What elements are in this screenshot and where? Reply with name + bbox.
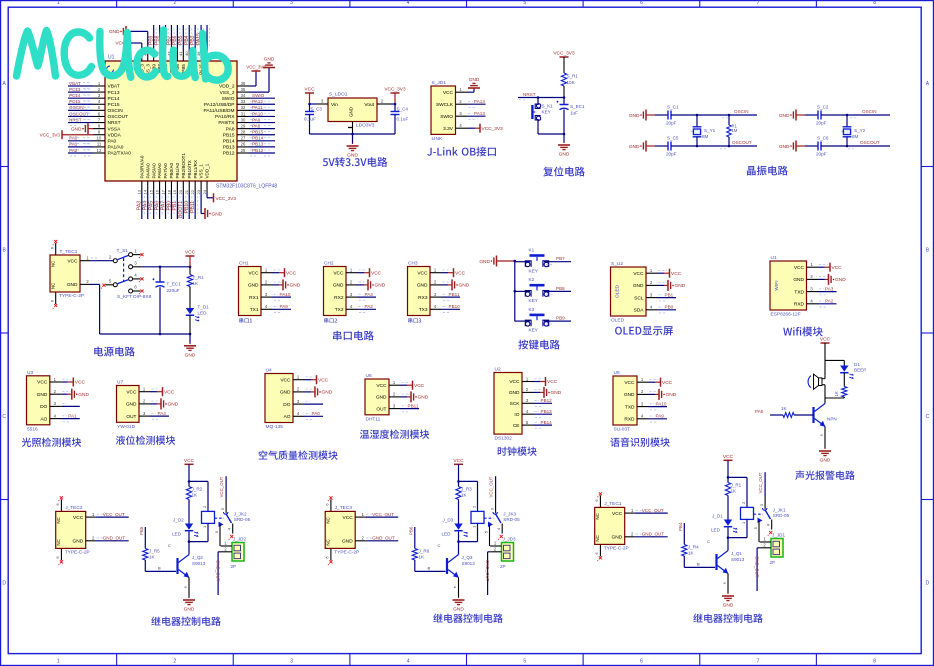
ground rail of LDO (310, 122, 396, 159)
svg-text:1K: 1K (193, 281, 200, 286)
svg-text:U7: U7 (117, 380, 123, 386)
svg-text:PB14: PB14 (223, 139, 235, 145)
svg-text:7: 7 (757, 0, 760, 6)
svg-text:GND: GND (184, 607, 195, 613)
svg-text:GND: GND (418, 395, 429, 401)
svg-text:VCC: VCC (455, 270, 466, 276)
svg-text:SWIO: SWIO (440, 114, 453, 120)
svg-text:5516: 5516 (27, 426, 38, 432)
svg-text:1: 1 (57, 658, 60, 664)
svg-text:1K: 1K (688, 550, 695, 555)
svg-text:PB4: PB4 (678, 522, 683, 531)
svg-text:PA3: PA3 (365, 292, 374, 297)
svg-text:PA10: PA10 (656, 401, 667, 406)
svg-text:C: C (926, 414, 930, 420)
svg-text:PA9: PA9 (280, 304, 289, 309)
svg-text:PA11: PA11 (252, 105, 263, 110)
wire and net label OSCIN (821, 109, 890, 118)
svg-text:GND_OUT: GND_OUT (372, 536, 395, 541)
title crystal circuit (747, 166, 788, 176)
svg-text:TX2: TX2 (335, 307, 344, 313)
svg-text:RXD: RXD (624, 417, 635, 423)
relay contact J_JK2 SRD-05 (214, 476, 251, 546)
svg-text:S_JD1: S_JD1 (432, 80, 447, 86)
switch T_S1 S_KFT DIP-8X8 (101, 248, 152, 300)
svg-text:4: 4 (407, 0, 410, 6)
svg-text:PA0: PA0 (312, 411, 321, 416)
svg-text:5: 5 (523, 658, 526, 664)
svg-text:20pF: 20pF (816, 152, 827, 157)
label serial port 2 (324, 318, 337, 323)
title key circuit (518, 340, 560, 350)
svg-text:PA12/USB/DP: PA12/USB/DP (204, 102, 235, 108)
svg-text:GND: GND (459, 283, 470, 289)
svg-text:C: C (438, 543, 441, 548)
svg-text:PA10/RX: PA10/RX (215, 114, 235, 120)
resistor S_R1 10K (561, 73, 578, 98)
svg-text:PA1: PA1 (68, 413, 77, 418)
svg-text:U5: U5 (614, 370, 620, 376)
svg-text:PB15: PB15 (223, 132, 235, 138)
svg-text:J_Q3: J_Q3 (462, 555, 473, 560)
svg-text:J_R2: J_R2 (192, 486, 203, 491)
title relay control (433, 614, 503, 623)
svg-text:T_EC1: T_EC1 (167, 282, 182, 287)
MCU right pins 25-36 (203, 81, 275, 157)
svg-text:18: 18 (166, 189, 171, 194)
svg-text:PC14: PC14 (108, 96, 120, 102)
title relay control (151, 617, 221, 626)
power VCC_3V3 on MCU pin 9 VDDA (40, 130, 93, 139)
svg-text:GND: GND (551, 390, 562, 396)
svg-text:PB12: PB12 (223, 151, 235, 157)
svg-text:J_JK1: J_JK1 (773, 508, 786, 513)
svg-text:PB11: PB11 (190, 201, 196, 213)
svg-text:4: 4 (407, 658, 410, 664)
module U1 ESP8266 WiFi (770, 255, 846, 317)
svg-text:S_U2: S_U2 (611, 261, 623, 267)
svg-text:GND: GND (633, 283, 644, 289)
svg-text:BEEP: BEEP (854, 368, 866, 373)
svg-text:8: 8 (873, 0, 876, 6)
key K1 (515, 248, 571, 274)
svg-text:VDD_1: VDD_1 (205, 163, 210, 178)
capacitor S_C5 20pF (655, 136, 679, 157)
svg-text:TX1: TX1 (250, 307, 259, 313)
svg-text:20: 20 (178, 189, 183, 194)
svg-text:PA1: PA1 (69, 142, 78, 147)
connector CH1 serial (239, 261, 301, 316)
title air quality module (259, 450, 338, 459)
svg-text:WIFI: WIFI (774, 280, 780, 290)
ground on MCU pin 35 VSS_2 (249, 57, 275, 93)
svg-text:NC: NC (595, 535, 600, 541)
svg-text:U3: U3 (27, 370, 33, 376)
key K3 (515, 307, 571, 333)
svg-text:220uF: 220uF (167, 288, 180, 293)
svg-text:VCC: VCC (723, 454, 734, 460)
svg-text:J_D2: J_D2 (173, 518, 184, 523)
connector J_JD1 2P (760, 533, 786, 565)
power VCC_3V3 on MCU pin 24 VDD_1 (207, 193, 236, 203)
svg-text:VCC: VCC (624, 380, 635, 386)
svg-text:GND: GND (779, 113, 790, 119)
svg-text:J_Q1: J_Q1 (731, 551, 742, 556)
svg-text:TYPE-C-2P: TYPE-C-2P (604, 545, 629, 551)
svg-text:GND_OUT: GND_OUT (103, 536, 126, 541)
relay circuit 2 (453, 458, 477, 483)
svg-text:25: 25 (241, 148, 246, 153)
svg-text:NRST: NRST (69, 117, 82, 122)
ground on MCU pin 47 (109, 26, 148, 51)
svg-text:DS1302: DS1302 (495, 436, 513, 442)
svg-text:SWIO: SWIO (252, 93, 265, 98)
svg-text:K2: K2 (529, 277, 535, 282)
capacitor S_C4 0.1uF (391, 104, 409, 134)
relay coil (728, 477, 754, 537)
svg-text:VDD_2: VDD_2 (219, 84, 235, 90)
ground crystal circuit 1 OSCIN side (629, 110, 655, 121)
ground on MCU pin 23 VSS_1 (201, 193, 223, 220)
svg-text:SWCLK: SWCLK (436, 102, 454, 108)
svg-text:16: 16 (154, 189, 159, 194)
svg-text:LINK: LINK (432, 136, 443, 142)
svg-text:NC: NC (56, 517, 61, 523)
resistor T_R1 1K (187, 267, 204, 308)
svg-text:1M: 1M (732, 128, 738, 133)
resistor R1 1M (727, 114, 738, 148)
svg-text:TXD: TXD (625, 404, 635, 410)
power VCC input (304, 87, 315, 104)
power VCC alarm (820, 337, 831, 361)
svg-text:PA8: PA8 (252, 123, 261, 128)
svg-text:21: 21 (184, 189, 189, 194)
svg-text:OSCIN: OSCIN (734, 109, 749, 114)
svg-text:VCC: VCC (453, 458, 464, 464)
capacitor S_C2 20pF (805, 105, 829, 126)
svg-text:GND: GND (322, 390, 333, 396)
pin 3 wire Vin (308, 99, 328, 106)
svg-text:TX3: TX3 (419, 307, 428, 313)
relay contact J_JK3 SRD-05 (484, 476, 521, 546)
svg-text:PC13: PC13 (69, 87, 81, 92)
svg-text:VCC: VCC (371, 270, 382, 276)
svg-text:NC: NC (51, 261, 56, 267)
svg-text:GND: GND (509, 390, 520, 396)
label serial port 3 (408, 318, 421, 323)
svg-text:PA6/A0: PA6/A0 (157, 163, 162, 179)
svg-text:C: C (168, 543, 171, 548)
svg-text:GND: GND (185, 352, 196, 358)
svg-text:PA0: PA0 (108, 139, 117, 145)
svg-text:PB13: PB13 (541, 409, 553, 414)
svg-text:33: 33 (241, 99, 246, 104)
svg-text:20pF: 20pF (666, 152, 677, 157)
svg-text:VBAT: VBAT (108, 84, 120, 90)
title light detect module (22, 437, 81, 446)
svg-text:CH3: CH3 (408, 261, 418, 267)
svg-text:U1: U1 (108, 55, 115, 61)
svg-text:32: 32 (241, 105, 246, 110)
svg-text:NC: NC (595, 513, 600, 519)
svg-text:8M: 8M (702, 134, 709, 139)
svg-text:GND: GND (375, 283, 386, 289)
svg-text:OSCOUT: OSCOUT (860, 140, 880, 145)
title OLED (615, 326, 673, 335)
relay circuit 3 (723, 454, 747, 479)
power VCC of supply (185, 250, 196, 267)
svg-text:VCC: VCC (820, 337, 831, 343)
ground of supply (184, 334, 196, 358)
svg-text:D: D (2, 581, 6, 587)
svg-text:CH1: CH1 (239, 261, 249, 267)
svg-text:SCK: SCK (510, 401, 521, 407)
svg-text:J_TEC2: J_TEC2 (65, 505, 83, 511)
svg-text:VCC: VCC (164, 389, 175, 395)
svg-text:PA2: PA2 (69, 148, 78, 153)
svg-text:S_Y1: S_Y1 (704, 128, 716, 133)
svg-text:VCC: VCC (343, 515, 354, 521)
svg-text:GND_OUT: GND_OUT (755, 556, 760, 578)
transistor J_Q1 S9013 (707, 538, 745, 574)
svg-text:TYPE-C-2P: TYPE-C-2P (334, 549, 359, 555)
LED T_D1 (186, 305, 209, 335)
svg-text:PA5/A0: PA5/A0 (151, 163, 156, 179)
svg-text:PB9: PB9 (556, 316, 565, 321)
svg-text:PA1/A0: PA1/A0 (108, 145, 124, 151)
svg-text:SWIO: SWIO (222, 96, 235, 102)
svg-text:14: 14 (143, 189, 148, 194)
svg-text:PB10/TX: PB10/TX (187, 160, 192, 178)
svg-text:VCC: VCC (832, 265, 843, 271)
svg-text:PA0: PA0 (69, 136, 78, 141)
module U7 liquid level YW-01D (117, 380, 179, 430)
capacitor T_EC1 220uF (153, 267, 182, 334)
svg-text:LDO3V3: LDO3V3 (356, 123, 375, 129)
svg-text:CE: CE (513, 423, 520, 429)
MCU bottom pins 13-24 (137, 153, 210, 219)
wire switch out rail (141, 266, 191, 269)
svg-text:35: 35 (241, 87, 246, 92)
svg-text:3: 3 (290, 0, 293, 6)
svg-text:10K: 10K (567, 80, 576, 85)
svg-text:GND: GND (779, 144, 790, 150)
svg-text:DHT11: DHT11 (366, 416, 381, 422)
svg-text:C: C (2, 414, 6, 420)
svg-text:VCC_OUT: VCC_OUT (372, 512, 394, 517)
svg-text:26: 26 (241, 142, 246, 147)
relay coil (459, 481, 485, 541)
LED J_D1 (711, 514, 738, 539)
module U5 SU-03T voice (613, 370, 677, 432)
svg-text:0.1uF: 0.1uF (304, 116, 316, 121)
svg-text:GND: GND (629, 144, 640, 150)
svg-text:12: 12 (97, 148, 102, 153)
svg-text:PA10: PA10 (280, 292, 291, 297)
svg-text:VSS_2: VSS_2 (220, 90, 235, 96)
svg-text:TYPE-C-2P: TYPE-C-2P (59, 293, 84, 299)
ground on MCU pin 8 VSSA (71, 123, 93, 134)
svg-text:GND: GND (290, 283, 301, 289)
svg-text:30: 30 (241, 117, 246, 122)
svg-text:PB7: PB7 (556, 256, 565, 261)
svg-text:B: B (158, 566, 161, 571)
transistor J_Q3 S9013 (438, 542, 476, 578)
svg-text:6: 6 (640, 658, 643, 664)
net GND_OUT (755, 548, 760, 591)
capacitor S_C3 0.1uF (304, 104, 322, 134)
svg-text:LED: LED (198, 311, 208, 316)
svg-text:GND: GND (349, 107, 354, 117)
svg-text:VCC_3V3: VCC_3V3 (216, 196, 237, 201)
svg-text:PA13: PA13 (474, 111, 485, 116)
svg-text:10: 10 (97, 136, 102, 141)
net GND_OUT (216, 552, 221, 595)
LED J_D3 (442, 518, 469, 543)
svg-text:PA12: PA12 (252, 99, 263, 104)
svg-text:OSCOUT: OSCOUT (732, 140, 752, 145)
svg-text:VCC: VCC (280, 377, 291, 383)
svg-text:NC: NC (56, 539, 61, 545)
power VCC_3V3 on MCU pin 36 VDD_2 (246, 65, 266, 87)
svg-text:1K: 1K (834, 391, 839, 396)
svg-text:STM32F103C8T6_LQFP48: STM32F103C8T6_LQFP48 (216, 184, 277, 190)
svg-text:GND: GND (333, 283, 344, 289)
svg-text:PB5: PB5 (139, 526, 144, 535)
svg-text:PB11: PB11 (408, 403, 419, 408)
svg-text:2: 2 (174, 0, 177, 6)
svg-text:S_K1: S_K1 (542, 104, 554, 109)
svg-text:29: 29 (241, 123, 246, 128)
svg-text:RX1: RX1 (249, 295, 259, 301)
svg-text:GND: GND (820, 458, 831, 464)
svg-text:8: 8 (873, 658, 876, 664)
svg-text:PC13: PC13 (108, 90, 120, 96)
svg-text:40: 40 (184, 51, 189, 56)
resistor J_R1 1K (725, 477, 741, 519)
ground crystal circuit 2 OSCOUT side (779, 141, 805, 152)
title sound light alarm (795, 471, 855, 480)
svg-text:U4: U4 (266, 368, 272, 374)
svg-text:PB12: PB12 (541, 398, 553, 403)
svg-text:13: 13 (137, 189, 142, 194)
svg-text:OLED: OLED (615, 284, 621, 298)
key K2 (515, 277, 571, 303)
svg-text:PA9: PA9 (252, 117, 261, 122)
svg-text:11: 11 (97, 142, 102, 147)
svg-text:2: 2 (174, 658, 177, 664)
svg-text:VCC_OUT: VCC_OUT (642, 508, 664, 513)
svg-text:PA2: PA2 (365, 304, 374, 309)
connector J_JD3 2P (490, 537, 516, 569)
svg-text:8M: 8M (852, 134, 859, 139)
svg-text:PA4/A0: PA4/A0 (145, 163, 150, 179)
svg-text:15: 15 (148, 189, 153, 194)
svg-text:S_R1: S_R1 (567, 74, 579, 79)
svg-text:OSCIN: OSCIN (862, 109, 877, 114)
svg-text:VCC: VCC (37, 380, 48, 386)
svg-text:GND: GND (71, 126, 82, 132)
transistor Q NPN (814, 398, 837, 427)
svg-text:VBAT: VBAT (69, 81, 81, 86)
svg-text:SCL: SCL (634, 295, 644, 301)
svg-text:NRST: NRST (108, 120, 121, 126)
connector T_TEC1 TYPE-C-2P (50, 240, 91, 309)
svg-text:VCC: VCC (417, 270, 428, 276)
svg-text:VCC: VCC (662, 380, 673, 386)
svg-text:GND: GND (835, 277, 846, 283)
svg-text:LED: LED (442, 532, 452, 537)
ground crystal circuit 2 OSCIN side (779, 110, 805, 121)
svg-text:IO: IO (514, 412, 519, 418)
svg-text:GND: GND (67, 282, 78, 288)
svg-text:T_D1: T_D1 (198, 305, 210, 310)
title J-Link OB (427, 147, 496, 157)
svg-text:20pF: 20pF (816, 121, 827, 126)
svg-text:C: C (707, 539, 710, 544)
svg-text:PA2: PA2 (825, 299, 834, 304)
svg-text:S_LDO1: S_LDO1 (329, 92, 348, 98)
svg-text:S_Y2: S_Y2 (854, 128, 866, 133)
svg-text:GND: GND (629, 113, 640, 119)
svg-text:GND: GND (675, 283, 686, 289)
svg-text:PB1/A0: PB1/A0 (175, 162, 180, 178)
svg-text:J_R4: J_R4 (688, 544, 699, 549)
svg-text:PA5: PA5 (755, 409, 764, 414)
svg-text:PB14: PB14 (252, 136, 264, 141)
base resistor J_R4 and net PB4 (678, 522, 715, 567)
title reset circuit (543, 167, 584, 177)
svg-text:31: 31 (241, 111, 246, 116)
svg-text:NC: NC (326, 517, 331, 523)
svg-text:2P: 2P (770, 560, 776, 565)
crystal S_Y1 8M (690, 114, 716, 148)
svg-text:VSS_1: VSS_1 (199, 164, 204, 179)
svg-text:PA11/USB/DM: PA11/USB/DM (203, 108, 234, 114)
svg-text:22: 22 (190, 189, 195, 194)
svg-text:KEY: KEY (529, 328, 538, 333)
svg-text:PB0/A0: PB0/A0 (169, 162, 174, 178)
svg-text:U2: U2 (495, 367, 501, 373)
svg-text:GND: GND (109, 29, 120, 35)
svg-text:VDDA: VDDA (108, 132, 122, 138)
svg-text:36: 36 (241, 81, 246, 86)
LED D1 BEEP (825, 360, 866, 378)
svg-text:B: B (697, 562, 700, 567)
svg-text:PB15: PB15 (252, 130, 264, 135)
wire and net label OSCOUT (821, 140, 890, 149)
resistor J_R2 1K (186, 481, 202, 523)
svg-text:S_C5: S_C5 (667, 136, 679, 141)
svg-text:TXD: TXD (794, 289, 804, 295)
svg-text:VCC_3V3: VCC_3V3 (553, 51, 575, 57)
svg-text:GND: GND (453, 607, 464, 613)
svg-text:VCC_3V3: VCC_3V3 (384, 87, 406, 93)
svg-text:NRST: NRST (523, 92, 536, 97)
svg-text:PA4: PA4 (158, 411, 167, 416)
connector J_TEC2 TYPE-C-2P (55, 496, 129, 565)
svg-text:PA8: PA8 (226, 126, 235, 132)
emitter to ground (819, 427, 832, 464)
title clock module (498, 447, 537, 456)
svg-text:1K: 1K (781, 406, 788, 411)
connector J_TEC1 TYPE-C-2P (594, 492, 668, 561)
svg-text:41: 41 (178, 51, 183, 56)
svg-text:MQ-135: MQ-135 (266, 424, 284, 430)
module U4 air quality MQ-135 (265, 368, 333, 430)
capacitor S_C6 20pF (805, 136, 829, 157)
module U3 photoresistor 5516 (27, 370, 90, 432)
